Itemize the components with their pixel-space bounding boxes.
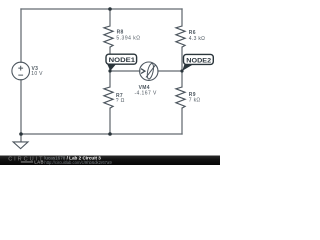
svg-text:http://circuitlab.com/c/9hb6dk: http://circuitlab.com/c/9hb6dk2r67a9 — [44, 160, 112, 165]
svg-text:5.394 kΩ: 5.394 kΩ — [116, 36, 140, 42]
svg-text:10 V: 10 V — [31, 71, 43, 77]
svg-text:NODE2: NODE2 — [186, 58, 212, 64]
svg-text:4.3 kΩ: 4.3 kΩ — [189, 36, 205, 42]
svg-text:-4.167 V: -4.167 V — [134, 90, 157, 96]
svg-text:? Ω: ? Ω — [116, 98, 125, 104]
svg-text:7 kΩ: 7 kΩ — [189, 98, 201, 104]
svg-text:NODE1: NODE1 — [109, 58, 136, 64]
svg-text:LAB: LAB — [34, 159, 44, 164]
